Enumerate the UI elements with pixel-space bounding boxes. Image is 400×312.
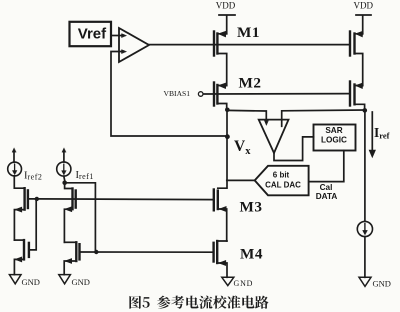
- svg-text:DATA: DATA: [316, 192, 338, 201]
- svg-text:Vx: Vx: [234, 138, 251, 157]
- svg-text:M2: M2: [239, 75, 262, 92]
- current source Iref1 circle: [57, 162, 71, 176]
- right upper PMOS Q5: [349, 32, 351, 56]
- svg-text:Iref: Iref: [374, 125, 390, 141]
- svg-text:M4: M4: [240, 246, 263, 263]
- wire dot to long wire 2 (via right and down): [65, 183, 96, 252]
- long wire 2: left mirror to M4 gate: [80, 251, 214, 253]
- wire CAL DAC output to Vx line: [227, 179, 255, 181]
- ground right: [359, 277, 371, 286]
- svg-text:Cal: Cal: [320, 183, 333, 192]
- wire current source to ground: [364, 237, 366, 278]
- transistor M1: [213, 32, 215, 56]
- wire right branch drain to comparator right input: [282, 110, 365, 126]
- wire M2 drain to comparator left input: [227, 110, 266, 121]
- SAR LOGIC box U3: [314, 125, 356, 151]
- transistor Q8 (left stack 1 lower, mirrored): [14, 239, 24, 241]
- wire right branch down to current source: [364, 110, 366, 222]
- node gate junction dot stack2: [94, 250, 98, 254]
- transistor Q9 (left stack 2 upper, mirrored): [71, 189, 73, 210]
- node right branch drain junction dot: [363, 108, 368, 113]
- node Vx junction dot: [225, 134, 230, 139]
- svg-text:Vref: Vref: [78, 25, 107, 42]
- wire dot down to Q9 drain: [65, 183, 73, 189]
- current source Iref2 circle: [8, 162, 22, 176]
- Iref arrow: [371, 112, 373, 151]
- svg-text:CAL DAC: CAL DAC: [265, 181, 301, 190]
- caption 图5 参考电流校准电路: [129, 296, 268, 309]
- wire Vref to op-amp minus input: [112, 35, 124, 37]
- transistor Q10 (left stack 2 lower, mirrored): [64, 241, 76, 243]
- ground stack2: [59, 275, 71, 284]
- svg-text:M3: M3: [240, 199, 263, 216]
- transistor M2: [213, 83, 215, 106]
- current source I3 (right): [357, 221, 372, 236]
- svg-text:Iref2: Iref2: [24, 171, 42, 182]
- 6 bit CAL DAC U4: [255, 166, 309, 196]
- wire Iref2 to mirror Q7 drain: [14, 176, 24, 188]
- svg-text:GND: GND: [72, 277, 90, 287]
- ground below M4: [222, 277, 234, 285]
- comparator U2: [259, 120, 289, 153]
- wire VBIAS1 to M2 gate and right lower PMOS gate: [203, 93, 348, 95]
- node Vx vertical wire down to M3 drain: [226, 110, 228, 188]
- Vref box: [70, 22, 112, 46]
- long wire 1: left mirror gates to M3 gate: [37, 198, 214, 201]
- svg-text:GND: GND: [234, 279, 254, 288]
- svg-text:Iref1: Iref1: [76, 170, 94, 181]
- svg-text:VDD: VDD: [216, 1, 236, 11]
- comparator output wire to SAR LOGIC: [274, 137, 314, 161]
- VDD left symbol: [219, 15, 235, 34]
- node gate junction dot stack1: [35, 197, 39, 201]
- wire stack1 gates tie vertical: [29, 199, 36, 250]
- svg-text:VBIAS1: VBIAS1: [164, 89, 191, 98]
- svg-text:LOGIC: LOGIC: [321, 135, 347, 144]
- transistor Q7 (left stack 1 upper, mirrored): [23, 188, 25, 209]
- svg-text:M1: M1: [237, 24, 260, 41]
- current source Iref1 stub arrow: [63, 151, 65, 162]
- node M2 drain junction dot: [225, 108, 230, 113]
- ground stack1: [9, 275, 21, 284]
- current source Iref2 stub arrow: [13, 151, 15, 162]
- VBIAS1 terminal circle: [198, 92, 203, 97]
- transistor M4: [212, 243, 214, 262]
- transistor M3: [213, 190, 215, 211]
- svg-text:SAR: SAR: [325, 126, 342, 135]
- node Iref1 drain junction dot: [62, 181, 67, 186]
- wire op-amp plus feedback to node Vx: [111, 52, 227, 137]
- svg-text:VDD: VDD: [354, 1, 374, 11]
- VDD right symbol: [356, 15, 371, 34]
- wire SAR LOGIC to CAL DAC (Cal DATA bus): [309, 151, 344, 182]
- right lower PMOS Q6: [349, 82, 351, 106]
- svg-text:GND: GND: [22, 277, 40, 287]
- svg-text:GND: GND: [373, 279, 391, 289]
- svg-text:6 bit: 6 bit: [273, 171, 290, 180]
- wire Iref1 circle to dot: [63, 176, 66, 180]
- wire op-amp output to M1 gate and right PMOS gate: [149, 44, 349, 46]
- op-amp U1: [119, 28, 149, 62]
